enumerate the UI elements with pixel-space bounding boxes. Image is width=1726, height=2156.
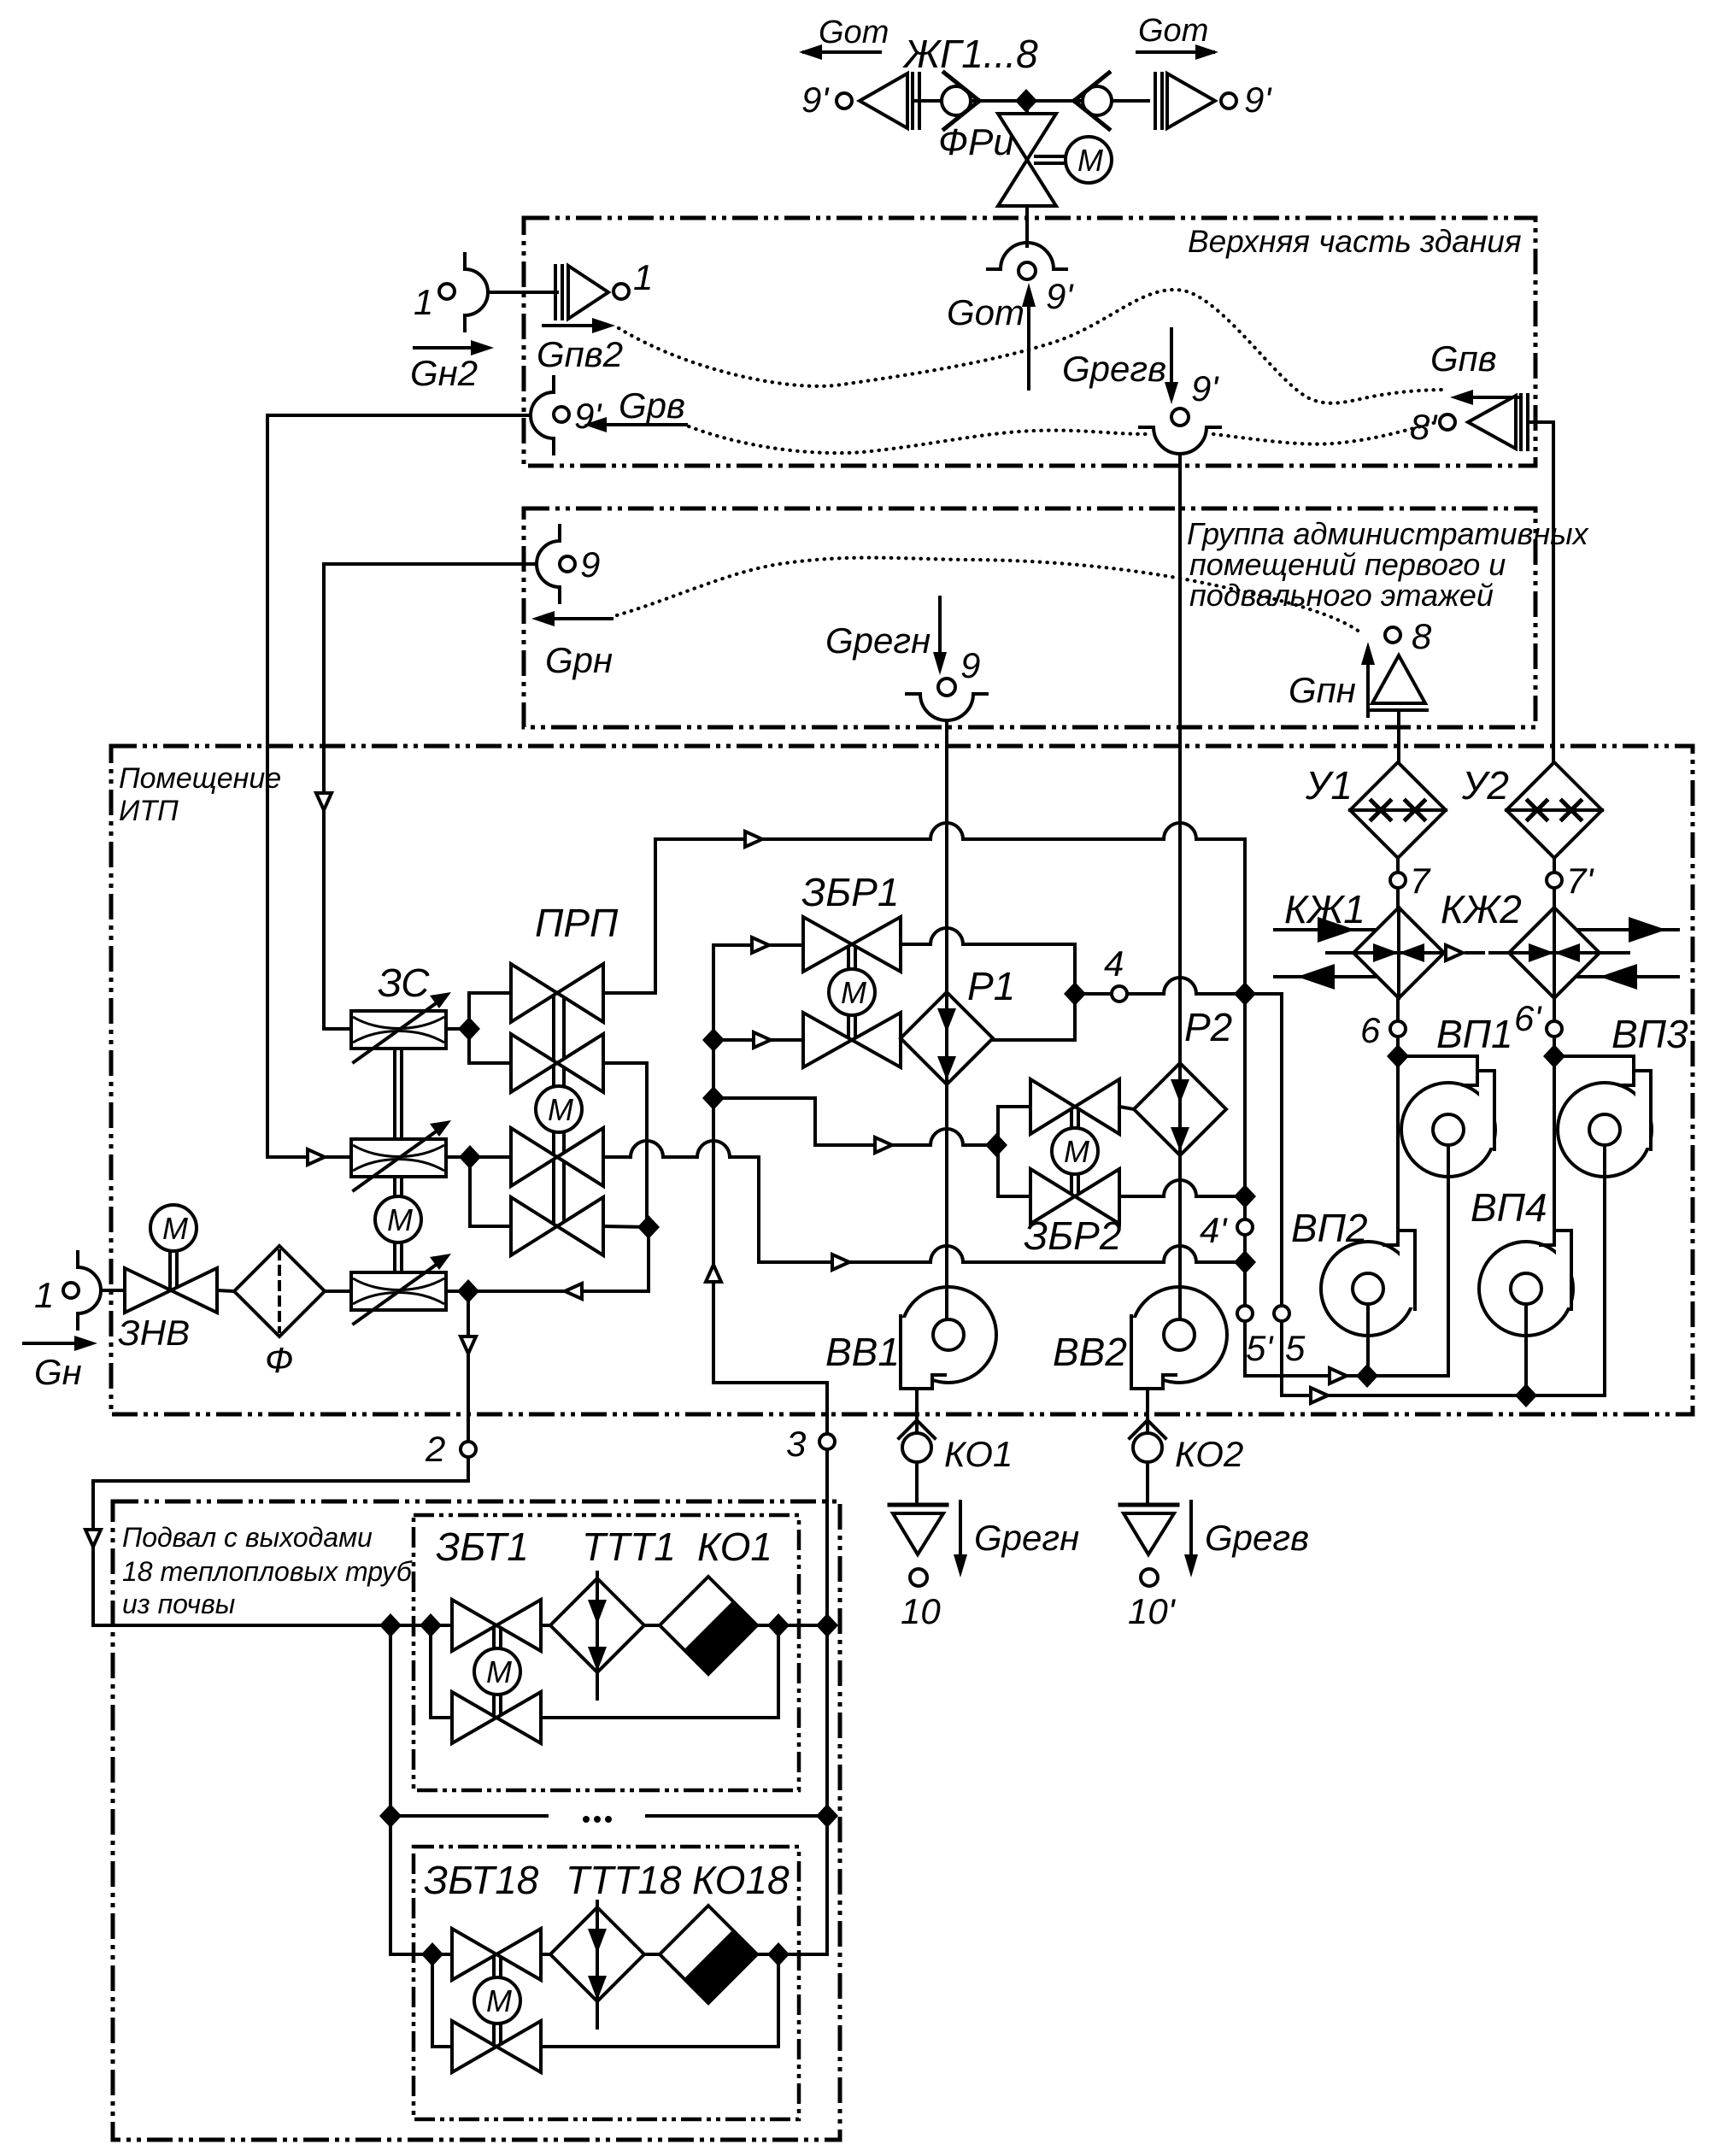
wire ЗБР1 top feed xyxy=(713,943,803,947)
junction ПРП2/ПРП4 xyxy=(637,1215,660,1239)
svg-text:Gн: Gн xyxy=(34,1352,82,1392)
node 4 xyxy=(1112,986,1127,1002)
junction ЗС2/ПРП xyxy=(459,1145,481,1169)
svg-text:18 теплопловых труб: 18 теплопловых труб xyxy=(122,1556,413,1587)
wire ФРи to roof penetration xyxy=(1025,206,1029,246)
check valve right (ЖГ) xyxy=(1074,73,1112,129)
svg-text:4: 4 xyxy=(1104,943,1124,984)
ЗБР2 left bracket xyxy=(998,1107,1030,1196)
svg-text:КО1: КО1 xyxy=(944,1434,1013,1474)
label Gот (top-right outflow) xyxy=(1137,13,1218,60)
box Подвал (basement) xyxy=(113,1501,840,2140)
svg-text:Подвал с выходами: Подвал с выходами xyxy=(122,1522,373,1553)
check valve КО1 (drain) xyxy=(899,1420,1013,1501)
svg-text:ФРи: ФРи xyxy=(938,121,1014,163)
wire ЗБР2 bottom output with bridge to V1 xyxy=(1119,1180,1245,1196)
box Помещение ИТП xyxy=(111,746,1693,1414)
manifold x835 xyxy=(713,945,827,1954)
svg-text:КО2: КО2 xyxy=(1175,1434,1243,1474)
wire ЗС2 output to ПРП bracket xyxy=(446,1155,470,1159)
label Gрегв with down arrow xyxy=(1062,329,1219,408)
junction node 4 takeoff xyxy=(1064,982,1086,1006)
svg-text:Gрегн: Gрегн xyxy=(825,620,931,661)
wire V2 to fan row y1633 xyxy=(1282,1394,1605,1397)
heat exchanger КЖ2 xyxy=(1441,887,1678,998)
heat exchanger У1 xyxy=(1305,762,1446,858)
wire ЗС3 output line xyxy=(446,1289,649,1293)
svg-text:Группа административных: Группа административных xyxy=(1187,516,1590,551)
box ЗБТ1 unit xyxy=(414,1515,799,1790)
heat meter Р1 xyxy=(901,964,1015,1084)
valve ЗБР1 with motor xyxy=(801,870,901,1067)
junction separator right xyxy=(816,1804,838,1828)
svg-text:2: 2 xyxy=(425,1429,445,1469)
label Gпв with arrow xyxy=(1430,338,1519,405)
label Gн2 with arrow xyxy=(410,340,494,393)
svg-text:9': 9' xyxy=(1244,79,1272,120)
wire ЗБР2 feed xyxy=(713,1098,996,1145)
wire penetration to ЗНВ xyxy=(101,1289,125,1292)
svg-text:7: 7 xyxy=(1410,861,1431,901)
wire header y1477 with bridges xyxy=(759,1246,1245,1262)
junction V1/y1477 xyxy=(1234,1250,1256,1274)
node 3 xyxy=(819,1434,835,1449)
junction ВП1 takeoff xyxy=(1387,1044,1409,1068)
fan ВП1 xyxy=(1398,1012,1513,1376)
svg-text:Gрегв: Gрегв xyxy=(1062,349,1166,389)
svg-text:9': 9' xyxy=(801,79,830,120)
wire У1 to КЖ1 xyxy=(1396,858,1400,908)
filter Ф xyxy=(234,1246,325,1380)
fan ВП2 xyxy=(1291,1206,1415,1376)
svg-text:ВВ2: ВВ2 xyxy=(1053,1330,1127,1374)
heat pipe unit ТТТ1 xyxy=(550,1572,644,1699)
label Gот (top-left outflow) xyxy=(799,15,889,60)
svg-text:1: 1 xyxy=(633,257,653,297)
svg-text:1: 1 xyxy=(34,1275,54,1315)
valve ЗБР2 with motor xyxy=(1024,1079,1121,1258)
ПРП bowtie 4 xyxy=(511,1197,603,1255)
svg-text:M: M xyxy=(387,1202,413,1237)
junction bypass1 right xyxy=(767,1613,790,1637)
svg-text:из почвы: из почвы xyxy=(122,1589,235,1619)
valve ЗБТ18 with motor and bypass xyxy=(432,1929,778,2072)
svg-text:6': 6' xyxy=(1514,998,1542,1038)
flow arrow right (ЗС2 feed) xyxy=(308,1149,325,1165)
wire ЗБР1 bottom feed xyxy=(713,1038,803,1042)
heat exchanger У2 xyxy=(1461,762,1602,858)
junction ВП4 shaft xyxy=(1515,1383,1537,1407)
node 9' floor penetration (Gрегв riser) xyxy=(1140,408,1220,454)
svg-text:1: 1 xyxy=(414,282,433,322)
svg-text:Gпв: Gпв xyxy=(1430,338,1497,379)
node 7 xyxy=(1390,872,1406,888)
flow arrow right (header y982) xyxy=(745,831,762,847)
junction separator left xyxy=(379,1804,402,1828)
svg-text:КО18: КО18 xyxy=(692,1858,790,1902)
svg-text:КО1: КО1 xyxy=(697,1524,772,1569)
fan ВП4 xyxy=(1471,1185,1573,1395)
wire main header y982 with bridges xyxy=(655,823,1245,839)
svg-text:Р2: Р2 xyxy=(1184,1005,1232,1049)
junction ЗС1/ПРП xyxy=(458,1017,480,1041)
svg-text:8: 8 xyxy=(1412,616,1432,656)
svg-text:Ф: Ф xyxy=(265,1340,293,1380)
svg-text:ВП4: ВП4 xyxy=(1471,1185,1547,1230)
svg-text:ЗБР1: ЗБР1 xyxy=(801,870,899,914)
wire ПРП4 output to junction xyxy=(603,1226,649,1227)
wire КЖ2 down xyxy=(1553,998,1556,1231)
wire 9' penetration to ITP riser xyxy=(267,414,531,417)
drain funnel 10 xyxy=(889,1505,947,1631)
svg-text:8': 8' xyxy=(1410,407,1438,447)
heat meter Р2 xyxy=(1134,1005,1232,1155)
svg-text:9': 9' xyxy=(1191,368,1219,408)
label Gрегв with down arrow (drain) xyxy=(1184,1501,1309,1577)
svg-text:9: 9 xyxy=(580,544,600,585)
junction row1 left xyxy=(379,1613,402,1637)
node 9 wall penetration (Gрн outlet, box2 left) xyxy=(537,526,600,602)
label Gпв2 with arrow xyxy=(537,318,623,374)
valve ЗБТ1 with motor and bypass xyxy=(431,1600,778,1743)
svg-text:Gот: Gот xyxy=(947,292,1024,332)
svg-text:10: 10 xyxy=(901,1591,941,1631)
svg-text:M: M xyxy=(548,1092,573,1127)
ПРП bowtie 2 xyxy=(511,1034,603,1092)
wire ПРП3 output with bridges to y1477 header xyxy=(603,1141,759,1262)
wire Gрегв riser down to Р2 xyxy=(1178,454,1182,1065)
svg-text:3: 3 xyxy=(786,1424,806,1464)
nozzle ЗС2 xyxy=(351,1120,451,1190)
wire 8 grille to У1 riser xyxy=(1397,710,1400,764)
roof penetration 9' (Gот riser) xyxy=(988,243,1066,279)
svg-text:Gрв: Gрв xyxy=(619,385,685,426)
svg-text:Gот: Gот xyxy=(819,15,889,50)
ЗС shaft with motor xyxy=(375,1049,421,1272)
wire ЗБР2 top output to Р2 xyxy=(1119,1107,1134,1109)
svg-text:10': 10' xyxy=(1128,1591,1177,1631)
air outlet nozzle right (ЖГ) xyxy=(1155,73,1215,128)
check valve КО18 (row18) xyxy=(660,1906,757,2003)
svg-text:Gрегв: Gрегв xyxy=(1205,1518,1309,1558)
wire ЖГ main line xyxy=(913,99,1148,103)
supply fan nozzle 1 (box1) xyxy=(555,257,653,319)
wire node4 line with bridge to V1 xyxy=(1075,978,1282,1395)
svg-text:ТТТ18: ТТТ18 xyxy=(566,1858,682,1902)
junction bypass18 right xyxy=(767,1942,790,1966)
box ЗБТ18 unit xyxy=(414,1847,799,2119)
svg-text:КЖ2: КЖ2 xyxy=(1441,887,1522,931)
wire Gрегн riser down to Р1 xyxy=(945,720,948,994)
svg-text:M: M xyxy=(1064,1134,1089,1169)
svg-text:Помещение: Помещение xyxy=(119,762,281,795)
fan ВВ2 xyxy=(1053,1155,1227,1433)
wire Ф to ЗС3 xyxy=(325,1289,351,1293)
valve ФРи with motor xyxy=(938,101,1112,206)
dotted flow path Gпв2 to Gпв xyxy=(619,290,1447,403)
svg-text:Gрн: Gрн xyxy=(545,640,613,680)
junction row1 right xyxy=(816,1613,838,1637)
wire ЗНВ to Ф xyxy=(217,1290,234,1291)
node 9' wall penetration (Gрв outlet, box1 left) xyxy=(531,377,602,454)
svg-text:M: M xyxy=(486,1983,512,2018)
fan ВВ1 xyxy=(825,1084,996,1433)
wire ПРП2 output connector xyxy=(603,1063,647,1227)
node 8 with supply grille (Gпн) xyxy=(1371,616,1432,710)
wire 8' to У2 riser xyxy=(1528,422,1553,764)
node 5 xyxy=(1274,1306,1289,1321)
check valve КО1 (row1) xyxy=(660,1577,757,1674)
node 7' xyxy=(1547,872,1562,888)
wire riser from 9' (box1) down to ЗС2 xyxy=(267,415,351,1157)
flow arrow up (x835) xyxy=(706,1265,721,1282)
wire ЗС3 junction down to node 2 xyxy=(93,1291,468,1625)
wire basement main row 18 xyxy=(390,1953,827,1956)
junction V1/node4 xyxy=(1234,982,1256,1006)
wire ЗС1 output to ПРП bracket xyxy=(446,1027,469,1031)
node 8' with return grille (box1 right) xyxy=(1410,395,1528,449)
svg-text:ЗНВ: ЗНВ xyxy=(118,1313,190,1353)
svg-text:ВП1: ВП1 xyxy=(1436,1012,1513,1056)
flow arrow down (basement feed x109) xyxy=(85,1530,101,1547)
svg-text:5: 5 xyxy=(1285,1328,1306,1368)
air outlet nozzle left (ЖГ) xyxy=(860,73,919,128)
junction node (ЖГ tee) xyxy=(1015,89,1037,113)
nozzle ЗС1 xyxy=(351,992,451,1062)
wire basement main row 1 xyxy=(93,1624,827,1627)
svg-text:помещений первого и: помещений первого и xyxy=(1189,547,1506,582)
wire 9 penetration to ITP riser xyxy=(324,562,537,566)
svg-text:ТТТ1: ТТТ1 xyxy=(582,1524,676,1569)
flow arrow right (header y1477) xyxy=(832,1254,849,1270)
node 4' xyxy=(1237,1219,1253,1235)
junction ВП3 takeoff xyxy=(1543,1044,1565,1068)
junction ЗС3 line xyxy=(457,1279,479,1303)
node 1 with wall penetration (Gн2 inlet) xyxy=(414,254,488,331)
label Gпн with up arrow xyxy=(1289,642,1375,716)
svg-text:4': 4' xyxy=(1200,1210,1228,1250)
svg-text:Gпв2: Gпв2 xyxy=(537,334,623,374)
dotted flow path box2 xyxy=(617,558,1360,632)
svg-text:M: M xyxy=(162,1211,188,1246)
svg-text:У1: У1 xyxy=(1305,763,1353,808)
wire ПРП1 output up to main header xyxy=(603,839,655,993)
wire row separator with dots xyxy=(390,1814,547,1818)
label Gот with up arrow (inside box1) xyxy=(947,276,1074,389)
junction bypass1 left xyxy=(420,1613,442,1637)
wire ЗБР1 bottom output to Р1 left xyxy=(901,1038,907,1042)
check valve left (ЖГ) xyxy=(942,73,979,129)
label Gрв with arrow xyxy=(584,385,686,432)
flow arrow left (to ЗС3 junction) xyxy=(565,1284,582,1299)
ПРП motor xyxy=(536,1086,582,1132)
svg-text:Gрегн: Gрегн xyxy=(974,1518,1079,1558)
node 2 xyxy=(461,1442,476,1457)
flow arrow down (x548) xyxy=(461,1336,476,1354)
svg-text:Gот: Gот xyxy=(1138,13,1208,49)
ПРП bowtie 3 xyxy=(511,1128,603,1186)
svg-text:ПРП: ПРП xyxy=(535,901,619,945)
svg-text:M: M xyxy=(486,1654,512,1689)
check valve КО2 (drain) xyxy=(1130,1420,1243,1501)
wire row1 to row18 riser xyxy=(389,1625,392,1954)
svg-text:Gпн: Gпн xyxy=(1289,670,1356,710)
ПРП shaft xyxy=(554,993,564,1226)
svg-text:ЗС: ЗС xyxy=(378,961,430,1005)
wire ЗБР1 top output over to Р1 right xyxy=(901,928,1075,1040)
label Gрн with arrow xyxy=(531,611,613,680)
wire V1 riser xyxy=(1243,839,1247,1376)
svg-text:9': 9' xyxy=(574,396,602,436)
flow arrow down (riser x379) xyxy=(316,793,332,810)
svg-text:9: 9 xyxy=(960,645,980,685)
node 9' (right) xyxy=(1221,93,1236,109)
label Gн with arrow xyxy=(24,1336,97,1392)
box Группа административных помещений xyxy=(524,508,1535,727)
fan ВП3 xyxy=(1554,1012,1688,1395)
box Верхняя часть здания (upper part of building) xyxy=(524,218,1535,466)
wire У2 to КЖ2 xyxy=(1553,858,1556,908)
node 6' xyxy=(1547,1021,1562,1037)
svg-text:Gн2: Gн2 xyxy=(410,353,478,393)
svg-text:У2: У2 xyxy=(1461,763,1509,808)
svg-text:5': 5' xyxy=(1246,1328,1274,1368)
svg-text:M: M xyxy=(1077,143,1103,178)
wire V1 to fan row y1610 xyxy=(1245,1374,1448,1378)
ПРП left bracket lower xyxy=(470,1157,511,1226)
valve ЗНВ with motor xyxy=(118,1205,217,1353)
svg-text:Р1: Р1 xyxy=(967,964,1015,1008)
svg-text:M: M xyxy=(841,975,866,1010)
wire junction down to ЗС3 line xyxy=(647,1227,650,1291)
ПРП bowtie 1 xyxy=(511,964,603,1022)
wire riser from 9 (box2) down to ЗС1 xyxy=(324,564,351,1029)
label Gрегн with down arrow xyxy=(825,597,980,685)
dotted flow path Gрв return xyxy=(689,418,1453,453)
node 5' xyxy=(1237,1306,1253,1321)
junction bypass18 left xyxy=(421,1942,443,1966)
junction ВП2 shaft xyxy=(1356,1364,1378,1388)
svg-text:6: 6 xyxy=(1360,1010,1381,1050)
wire penetration to supply fan 1 xyxy=(488,291,557,294)
svg-text:подвального этажей: подвального этажей xyxy=(1189,578,1494,613)
svg-text:7': 7' xyxy=(1566,861,1594,901)
svg-text:ИТП: ИТП xyxy=(119,795,179,827)
svg-text:ВП3: ВП3 xyxy=(1612,1012,1688,1056)
heat exchanger КЖ1 xyxy=(1275,887,1483,998)
svg-text:ЗБТ18: ЗБТ18 xyxy=(424,1858,539,1902)
wire КЖ1 down xyxy=(1396,998,1400,1231)
svg-text:ЗБТ1: ЗБТ1 xyxy=(436,1524,529,1569)
ПРП left bracket upper xyxy=(469,993,511,1063)
svg-text:Верхняя часть здания: Верхняя часть здания xyxy=(1188,224,1522,259)
svg-text:9': 9' xyxy=(1046,276,1074,316)
nozzle ЗС3 xyxy=(351,1254,451,1324)
heat pipe unit ТТТ18 xyxy=(550,1901,644,2028)
svg-text:ЖГ1...8: ЖГ1...8 xyxy=(902,32,1038,76)
label Gрегн with down arrow (drain) xyxy=(954,1501,1079,1577)
node 1 with wall penetration (Gн inlet) xyxy=(34,1252,101,1329)
node 9 floor penetration (Gрегн riser) xyxy=(907,679,987,720)
svg-text:ВВ1: ВВ1 xyxy=(825,1330,900,1374)
drain funnel 10' xyxy=(1120,1505,1177,1631)
node 6 xyxy=(1390,1021,1406,1037)
